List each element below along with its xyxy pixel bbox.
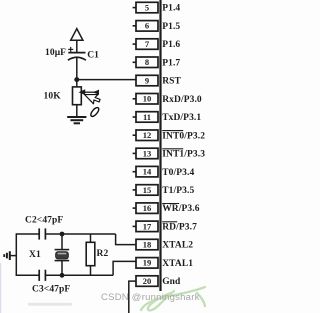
svg-text:8: 8	[145, 57, 149, 67]
svg-text:XTAL2: XTAL2	[162, 241, 193, 251]
svg-text:17: 17	[143, 221, 152, 231]
node crystal top	[60, 232, 65, 237]
svg-text:10K: 10K	[44, 92, 62, 102]
green watermark flourish	[141, 287, 205, 310]
pin 13 box	[133, 148, 158, 159]
pin 9 label RST	[162, 77, 181, 87]
pin 19 label XTAL1	[162, 259, 193, 269]
svg-text:6: 6	[145, 21, 149, 31]
svg-text:5: 5	[145, 3, 149, 13]
left rail	[15, 233, 17, 276]
capacitor C1 bottom curved plate	[68, 57, 86, 60]
svg-text:C3<47pF: C3<47pF	[32, 285, 70, 295]
svg-text:20: 20	[143, 276, 152, 286]
svg-text:P1.7: P1.7	[162, 58, 180, 68]
pin 8 box	[133, 57, 158, 68]
mouse cursor	[85, 95, 101, 118]
pin 7 box	[133, 39, 158, 50]
pin 10 label RxD/P3.0	[162, 95, 202, 105]
pin 18 box	[136, 239, 158, 250]
svg-text:T0/P3.4: T0/P3.4	[162, 168, 194, 178]
ground (reset)	[67, 117, 86, 123]
pot wiper arrow	[79, 89, 99, 95]
svg-text:18: 18	[143, 240, 152, 250]
svg-text:INT1/P3.3: INT1/P3.3	[162, 150, 205, 160]
pin 10 box	[133, 94, 158, 105]
svg-text:CSDN @runningshark: CSDN @runningshark	[101, 292, 200, 303]
svg-text:9: 9	[145, 75, 149, 85]
svg-text:X1: X1	[29, 250, 41, 260]
resistor R2 body	[86, 242, 95, 265]
chip body edge	[159, 0, 161, 291]
svg-text:RD/P3.7: RD/P3.7	[162, 223, 197, 233]
ground stub left	[10, 255, 16, 257]
pin 6 box	[133, 21, 158, 32]
pin 7 label P1.6	[162, 40, 180, 50]
page edge tint strip	[0, 263, 1, 313]
pin 17 label RD/P3.7	[162, 222, 197, 233]
svg-text:C2<47pF: C2<47pF	[25, 216, 63, 226]
wire junction to resistor	[76, 80, 78, 88]
pin 15 box	[133, 185, 158, 196]
pin 9 box	[136, 75, 158, 86]
svg-text:10: 10	[143, 94, 152, 104]
svg-text:15: 15	[143, 185, 152, 195]
pin 14 box	[133, 166, 158, 177]
pin 20 box	[136, 276, 158, 287]
svg-text:R2: R2	[97, 249, 109, 259]
pin 12 box	[133, 130, 158, 141]
crystal X1 top plate	[55, 249, 70, 251]
svg-text:19: 19	[143, 258, 152, 268]
pin 20 label Gnd	[162, 277, 181, 287]
svg-text:12: 12	[143, 130, 152, 140]
resistor 10K (pot) body	[73, 87, 82, 105]
svg-text:14: 14	[143, 167, 152, 177]
crystal X1 bottom plate	[55, 260, 70, 262]
svg-text:P1.4: P1.4	[162, 4, 180, 14]
capacitor C3 plates	[38, 270, 40, 281]
pin 11 box	[133, 112, 158, 123]
svg-text:11: 11	[143, 112, 151, 122]
wire R2 bottom	[90, 266, 92, 276]
pin 11 label TxD/P3.1	[162, 113, 201, 123]
bottom rail wire right of C3	[45, 274, 113, 276]
ground (crystal, horizontal)	[4, 251, 10, 260]
capacitor C1 top plate	[68, 52, 85, 54]
wire junction to RST pin 9	[77, 79, 136, 81]
top rail wire left of C2	[16, 233, 39, 235]
pin 13 label INT1/P3.3	[162, 149, 205, 160]
pin 16 box	[133, 203, 158, 214]
pin 15 label T1/P3.5	[162, 186, 194, 196]
svg-text:RxD/P3.0: RxD/P3.0	[162, 95, 202, 105]
svg-text:XTAL1: XTAL1	[162, 259, 193, 269]
plus sign of C1	[68, 47, 73, 52]
wire C1 to junction	[76, 58, 78, 81]
pin 17 box	[133, 221, 158, 232]
crystal X1 body	[56, 252, 69, 259]
svg-text:T1/P3.5: T1/P3.5	[162, 186, 194, 196]
pin 16 label WR/P3.6	[162, 204, 200, 215]
wire Gnd pin 20	[129, 281, 136, 313]
svg-text:TxD/P3.1: TxD/P3.1	[162, 113, 201, 123]
svg-text:Gnd: Gnd	[162, 277, 181, 287]
bottom rail wire left of C3	[16, 274, 39, 276]
svg-text:C1: C1	[87, 51, 99, 61]
pin 14 label T0/P3.4	[162, 168, 194, 178]
pin 18 label XTAL2	[162, 241, 193, 251]
wire step up to XTAL1	[113, 261, 136, 275]
wire step down to XTAL2	[116, 234, 136, 245]
svg-text:13: 13	[143, 148, 152, 158]
svg-text:16: 16	[143, 203, 152, 213]
svg-text:WR/P3.6: WR/P3.6	[162, 204, 200, 214]
wire resistor to ground	[76, 105, 78, 117]
svg-text:P1.5: P1.5	[162, 22, 180, 32]
wire R2 top	[90, 234, 92, 242]
svg-text:INT0/P3.2: INT0/P3.2	[162, 131, 205, 141]
svg-text:P1.6: P1.6	[162, 40, 180, 50]
capacitor C2 plates	[38, 228, 40, 239]
pin 12 label INT0/P3.2	[162, 131, 205, 142]
junction node RST	[74, 77, 79, 82]
wire crystal to bottom node	[61, 261, 63, 276]
wire node to crystal	[61, 234, 63, 250]
pin 19 box	[136, 258, 158, 269]
svg-text:10μF: 10μF	[45, 48, 66, 58]
top rail wire right of C2	[45, 233, 115, 235]
pin 8 label P1.7	[162, 58, 180, 68]
svg-text:RST: RST	[162, 77, 181, 87]
pin 6 label P1.5	[162, 22, 180, 32]
pin 5 box	[133, 2, 158, 13]
node crystal bottom	[60, 273, 65, 278]
wire vcc to C1	[76, 40, 78, 52]
pin 5 label P1.4	[162, 4, 180, 14]
vcc triangle	[71, 29, 83, 41]
faint print smudge	[28, 303, 72, 306]
